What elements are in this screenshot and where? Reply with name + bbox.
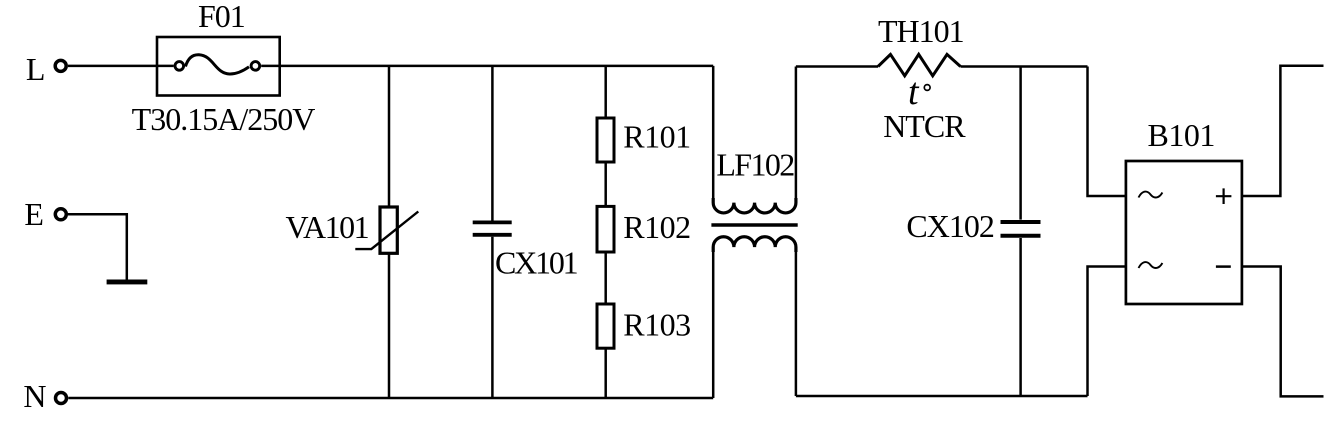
- wire E to ground: [68, 214, 127, 279]
- terminal N: [56, 393, 67, 404]
- upper winding lead right: [795, 67, 798, 199]
- svg-text:t: t: [908, 71, 920, 113]
- fuse lead right: [261, 65, 280, 68]
- wire CX102 branch bottom: [1019, 238, 1022, 396]
- upper winding: [713, 198, 796, 213]
- wire bottom rail N to LF102: [68, 397, 713, 400]
- resistor R102: [597, 206, 614, 252]
- wire CX101 branch top: [491, 66, 494, 221]
- wire DC output plus: [1242, 66, 1324, 196]
- svg-text:CX101: CX101: [495, 244, 578, 280]
- svg-text:NTCR: NTCR: [883, 108, 966, 144]
- ground: [107, 280, 148, 285]
- upper winding lead left: [712, 66, 715, 198]
- svg-text:E: E: [24, 196, 44, 232]
- svg-text:R103: R103: [623, 307, 690, 343]
- pin symbol minus: [1216, 265, 1231, 268]
- svg-text:R102: R102: [623, 209, 690, 245]
- core: [711, 223, 797, 227]
- thermistor TH101 zigzag: [878, 54, 961, 75]
- resistor R101: [597, 118, 614, 162]
- pin symbol plus: [1216, 188, 1232, 204]
- bridge rectifier B101: [1126, 161, 1242, 304]
- lower winding lead right: [795, 252, 798, 396]
- wire L to fuse: [68, 65, 157, 68]
- terminal L: [55, 60, 66, 71]
- svg-text:TH101: TH101: [878, 13, 964, 49]
- terminal E: [55, 209, 66, 220]
- wire B101 AC input bottom: [1088, 267, 1126, 397]
- svg-text:B101: B101: [1148, 117, 1215, 153]
- wire CX101 branch bottom: [491, 237, 494, 398]
- capacitor CX101: [473, 222, 512, 234]
- wire top rail TH101 to B101 corner: [961, 65, 1088, 68]
- wire B101 AC input top: [1088, 67, 1126, 197]
- wire DC output minus: [1242, 267, 1324, 397]
- fuse F01 box: [157, 37, 280, 96]
- wire top rail fuse to LF102: [280, 65, 714, 68]
- svg-text:VA101: VA101: [286, 209, 369, 245]
- wire VA101 branch: [388, 66, 391, 398]
- fuse lead left: [157, 65, 174, 68]
- svg-text:CX102: CX102: [906, 208, 993, 244]
- wire CX102 branch top: [1019, 67, 1022, 220]
- varistor VA101: [355, 207, 418, 253]
- svg-text:LF102: LF102: [716, 147, 794, 183]
- choke LF102: [711, 66, 797, 398]
- fuse contact circle right: [251, 62, 260, 71]
- pin symbol AC bottom: [1139, 262, 1163, 268]
- fuse contact circle left: [175, 62, 184, 71]
- svg-text:N: N: [23, 378, 46, 414]
- lower winding: [713, 237, 796, 252]
- svg-text:L: L: [26, 51, 46, 87]
- lower winding lead left: [712, 252, 715, 398]
- wire top rail LF102 to TH101: [796, 65, 878, 68]
- pin symbol AC top: [1139, 192, 1163, 198]
- capacitor CX102: [1001, 222, 1041, 236]
- wire bottom rail LF102 to B101 corner: [796, 395, 1088, 398]
- svg-text:T30.15A/250V: T30.15A/250V: [132, 101, 316, 137]
- resistor R103: [597, 304, 614, 348]
- wire resistor branch: [604, 66, 607, 398]
- fuse element s-curve: [186, 55, 250, 74]
- svg-text:R101: R101: [623, 119, 690, 155]
- svg-text:F01: F01: [198, 0, 245, 34]
